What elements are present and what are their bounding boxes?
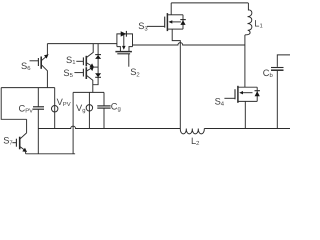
- svg-text:CPV: CPV: [19, 103, 34, 114]
- svg-text:S6: S6: [21, 61, 31, 72]
- wire: L1 bottom to S4 drain vertical: [244, 35, 246, 87]
- diode D5 (lower, cathode down): [95, 73, 101, 77]
- svg-text:L2: L2: [191, 136, 199, 147]
- wire: node to diode column connector: [93, 66, 98, 68]
- wire: top wire y2.9 from S3 drain to L1 top: [171, 2, 248, 4]
- wire: bottom bus y128.5 from C_PV lead to L2 (hops over x73.1): [38, 126, 180, 128]
- transistor S6 (IGBT): [30, 44, 49, 88]
- wire: S4 source drop to bottom bus: [244, 101, 246, 128]
- svg-text:S5: S5: [63, 68, 73, 79]
- svg-text:S4: S4: [215, 96, 225, 107]
- switch S4 (MOSFET module): [224, 86, 260, 103]
- svg-text:S2: S2: [130, 67, 139, 78]
- capacitor C_b: [271, 68, 284, 71]
- source V_PV: [52, 88, 58, 129]
- svg-text:S1: S1: [66, 55, 75, 66]
- svg-text:Vg: Vg: [76, 103, 85, 114]
- source V_g: [86, 92, 92, 128]
- inductor L2: [180, 129, 204, 134]
- wire: C_b top lead and right stub y54.9: [277, 55, 290, 67]
- wire: left rail y87.6: [1, 87, 55, 89]
- inductor L1: [245, 3, 252, 35]
- svg-text:S3: S3: [138, 21, 148, 32]
- wire: mid rail y92.4 (Vg/Cg top): [73, 91, 104, 93]
- diode D1 (upper, cathode up): [95, 55, 101, 59]
- transistor S5 (IGBT, bottom of pair, flipped): [74, 67, 94, 93]
- switch S3 (MOSFET module): [147, 3, 186, 31]
- wire: left edge drop to S7 collector feed: [1, 88, 26, 120]
- wire: top-right bus from S2 right side to L1 bottom (hop at x180.3): [133, 43, 245, 45]
- wire: bottom wire y153.8 (S7 emitter rail): [26, 153, 76, 155]
- switch S2 (MOSFET module, horizontal): [115, 31, 132, 67]
- transistor S7 (IGBT): [12, 119, 27, 154]
- transistor S1 (IGBT, top of bidirectional pair): [76, 44, 94, 68]
- wire: C_b bottom lead: [276, 70, 278, 128]
- svg-text:VPV: VPV: [57, 97, 71, 108]
- svg-text:Cg: Cg: [111, 102, 121, 113]
- wire: top-left bus from S6 emitter to S2 left side: [47, 43, 117, 45]
- capacitor C_g: [97, 92, 110, 128]
- svg-text:S7: S7: [3, 136, 12, 147]
- wire: diode column vertical: [93, 44, 98, 85]
- capacitor C_PV: [33, 88, 44, 154]
- svg-text:L1: L1: [254, 19, 262, 30]
- wire: net-B drop from mid rail to bottom wire, hop crossing at y128.5: [72, 92, 74, 153]
- wire: bottom-right bus from L2 to right edge: [204, 128, 290, 130]
- wire: S3 source to L2 vertical (jog + long drop): [172, 29, 180, 128]
